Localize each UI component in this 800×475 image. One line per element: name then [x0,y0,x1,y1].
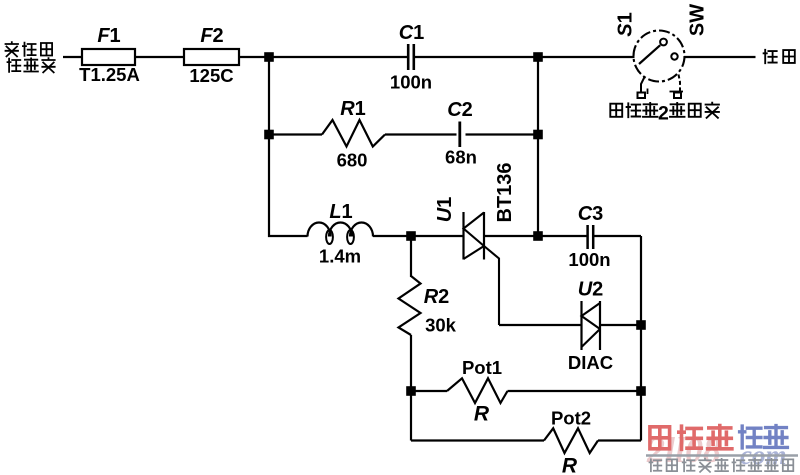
wire C2 to node D [466,133,539,135]
fuse F2 [184,49,239,65]
svg-text:S1: S1 [615,12,637,36]
label: output (输出) [764,50,795,63]
triac U1 MT1 bar [462,212,464,260]
svg-text:SW: SW [686,4,708,36]
svg-text:R: R [474,403,490,426]
S1 contact dot right [671,53,677,59]
svg-text:C1: C1 [399,22,425,44]
label Pot2 [551,408,591,429]
wire L1 to node E [373,235,411,237]
svg-text:DIAC: DIAC [568,352,613,373]
label F1 [97,25,120,47]
wire S1 to output [684,56,756,58]
node G junction [636,320,646,330]
label BT136 (rotated) [494,162,516,222]
capacitor C2 plate [458,122,461,148]
triac U1 gate lead [484,246,499,325]
wire node B down through node D to node F [537,57,539,236]
wire node C down to L1 row corner [269,135,308,237]
diac U2 right bar [599,301,601,350]
logo subtitle: 射频和天线设计专家 (gray) [650,459,794,472]
node C junction [264,130,274,140]
svg-text:2: 2 [658,103,669,125]
wire node A down to node C [268,57,270,135]
potentiometer Pot1 zigzag [447,378,508,403]
wire node E down to R2 [410,236,412,277]
inductor L1 coil [308,223,374,244]
value 100n of C3 [568,249,610,270]
label C1 [399,22,425,44]
value R of Pot1 [474,403,490,426]
svg-text:C2: C2 [447,99,473,121]
svg-text:U1: U1 [434,197,456,223]
logo: 培训 (blue) [740,426,788,448]
svg-text:1.4m: 1.4m [319,246,361,267]
svg-text:BT136: BT136 [494,162,516,222]
wire gate node to diac U2 [499,324,582,326]
wire node E to triac U1 [411,235,464,237]
resistor R2 zigzag [399,276,421,335]
svg-text:U2: U2 [578,279,604,301]
capacitor C3 [588,225,594,249]
label R2 [424,286,450,308]
label: AC source input line1 (交流电) [6,42,53,56]
S1 right terminal box [670,92,684,99]
label R1 [340,98,366,120]
label U1 (rotated) [434,197,456,223]
svg-text:100n: 100n [390,72,432,93]
value 125C of F2 [189,65,233,86]
node H junction [406,386,416,396]
fuse F1 [82,49,135,65]
wire node B to S1 [538,56,635,58]
node I junction [636,386,646,396]
label DIAC of U2 [568,352,613,373]
label: AC source input line2 (源输入) [8,58,55,72]
logo: 易迪拓 (red) [650,426,732,450]
wire node H to Pot1 [411,390,447,392]
label S1 (rotated) [615,12,637,36]
node F junction [533,231,543,241]
watermark: pale italic text behind logo [646,430,787,470]
svg-text:L1: L1 [329,201,352,223]
S1 right terminal lead [679,75,681,93]
label F2 [200,25,223,47]
wire triac U1 to node F [484,235,538,237]
wire F2 to node A [239,56,269,58]
diac U2 left bar [580,301,582,350]
wire R2 down to node H [410,335,412,391]
wire bottom row to Pot2 [411,439,544,441]
label C2 [447,99,473,121]
triac U1 MT2 bar [483,212,485,260]
wire node F to C3 [538,235,587,237]
svg-text:C3: C3 [578,203,604,225]
svg-text:30k: 30k [425,315,457,336]
wire node H down to bottom row [410,391,412,441]
wire C1 to node B [414,56,538,58]
diac U2 triangles [582,303,601,347]
label C3 [578,203,604,225]
logo divider line [646,454,798,456]
label L1 [329,201,352,223]
node B junction [533,52,543,62]
S1 switch lever [639,45,660,64]
svg-text:F2: F2 [200,25,223,47]
node A junction [264,52,274,62]
node E junction [406,231,416,241]
svg-text:680: 680 [337,150,368,171]
value 30k of R2 [425,315,457,336]
svg-text:125C: 125C [189,65,233,86]
label: 带开关 part [670,103,719,118]
wire C3 to right bus corner [593,235,641,237]
svg-text:T1.25A: T1.25A [79,64,140,85]
value R of Pot2 [562,455,578,475]
label: potentiometer-2 with switch (电位器2带开关) [610,103,657,117]
capacitor C1 [408,44,414,70]
S1 left terminal lead [641,77,645,93]
value 100n of C1 [390,72,432,93]
value 1.4m of L1 [319,246,361,267]
wire Pot2 to right bus bottom [598,439,641,441]
wire Pot1 to node I [508,390,642,392]
S1 left terminal box [638,89,648,99]
wire R1 to C2 [385,133,457,135]
potentiometer Pot2 zigzag [544,428,598,453]
label U2 [578,279,604,301]
triac U1 triangles [464,213,485,260]
label: digit 2 in 电位器2带开关 [658,103,669,125]
svg-text:R: R [562,455,578,475]
svg-text:Pot1: Pot1 [462,357,502,378]
svg-text:F1: F1 [97,25,120,47]
svg-text:R1: R1 [340,98,366,120]
switch S1 body circle [634,31,685,82]
wire diac U2 to node G [600,324,641,326]
svg-text:68n: 68n [445,147,477,168]
node D junction [533,130,543,140]
svg-text:Pot2: Pot2 [551,408,591,429]
value 680 of R1 [337,150,368,171]
S1 contact dot upper [660,39,667,46]
wire node A to C1 [269,56,408,58]
svg-text:100n: 100n [568,249,610,270]
label SW (rotated) [686,4,708,36]
wire node C to R1 [269,133,322,135]
label Pot1 [462,357,502,378]
svg-text:R2: R2 [424,286,450,308]
resistor R1 zigzag [322,120,385,147]
wire AC input to F1 [63,56,82,58]
value T1.25A of F1 [79,64,140,85]
wire F1 to F2 [135,56,184,58]
wire right bus vertical [640,236,642,441]
value 68n of C2 [445,147,477,168]
